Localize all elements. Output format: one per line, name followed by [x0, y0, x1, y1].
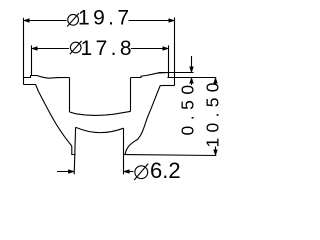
arrowhead Ø19.7 left	[24, 19, 30, 23]
recess bottom	[70, 111, 131, 115]
arrowhead Ø6.2 left	[68, 170, 74, 174]
dome outer curve left	[39, 92, 72, 147]
stem right wall	[123, 128, 125, 174]
0.50 reference line upper (H1)	[159, 72, 194, 74]
arrowhead 0.50 up	[190, 78, 194, 84]
diameter symbol for Ø19.7	[67, 13, 79, 26]
dimension Ø19.7 line right segment	[129, 20, 175, 22]
stem left wall	[74, 127, 75, 174]
arrowhead Ø17.8 right	[163, 47, 169, 51]
dome outer curve right	[125, 86, 160, 155]
arrowhead Ø17.8 left	[32, 47, 38, 51]
arrowhead 10.50 up	[214, 78, 218, 84]
svg-text:19.7: 19.7	[78, 6, 132, 29]
10.50 bottom reference line (H3)	[124, 155, 217, 156]
dimension Ø19.7 extension line right / rim right edge	[174, 17, 176, 85]
arrowhead Ø19.7 right	[169, 19, 175, 23]
concave cavity arc	[76, 127, 124, 132]
diameter symbol for Ø17.8	[70, 41, 82, 54]
part top surface left with tab	[24, 76, 70, 79]
0.50 lower arrow body	[191, 78, 193, 86]
Ø6.2 dimension line right	[124, 171, 134, 173]
diameter symbol for Ø6.2	[134, 164, 148, 180]
dimension Ø17.8 line left segment	[32, 48, 70, 50]
svg-text:6.2: 6.2	[150, 158, 181, 183]
10.50 dimension line top piece	[215, 78, 217, 86]
dimension Ø17.8 extension line left	[31, 45, 33, 75]
dimension Ø17.8 line right segment	[131, 48, 169, 50]
dimension Ø17.8 extension line right	[168, 45, 170, 77]
recess left wall	[69, 78, 71, 113]
lip underside left	[24, 85, 39, 92]
dimension Ø19.7 extension line left / part left edge	[23, 18, 25, 85]
svg-text:0.50: 0.50	[177, 79, 197, 135]
0.50 / 10.50 reference line (H2)	[167, 77, 216, 79]
svg-text:17.8: 17.8	[81, 37, 135, 60]
arrowhead 0.50 down	[190, 67, 194, 73]
arrowhead 10.50 down	[214, 150, 218, 156]
rim underside right	[160, 85, 174, 87]
top surface right of recess with tab	[131, 73, 175, 78]
recess right wall	[130, 78, 132, 112]
0.50 upper arrow leader	[191, 56, 193, 73]
left ledge to stem	[72, 146, 76, 155]
svg-text:10.50: 10.50	[202, 77, 222, 147]
dimension Ø19.7 line left segment	[24, 20, 67, 22]
arrowhead Ø6.2 right	[124, 170, 130, 174]
10.50 dimension line bottom piece	[215, 147, 217, 156]
Ø6.2 dimension line left	[57, 171, 74, 173]
